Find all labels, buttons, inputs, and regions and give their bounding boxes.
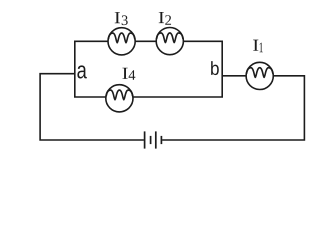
node a [77, 65, 86, 78]
wire: battery to right side up to lamp I1 [162, 76, 304, 140]
lamp I4 [106, 85, 133, 112]
lamp I1 [246, 62, 273, 89]
battery short plate left [150, 136, 152, 144]
label I4 [122, 68, 135, 80]
node b [211, 61, 219, 75]
battery short plate right [160, 136, 162, 144]
wire: node a to left side down to battery [40, 74, 144, 140]
label I3 [115, 12, 128, 25]
lamp I2 [156, 27, 183, 54]
label I2 [159, 12, 171, 25]
wire: inner rectangle between node a and node b [75, 41, 222, 97]
battery long plate right [155, 131, 157, 148]
label I1 [253, 40, 263, 53]
lamp I3 [108, 28, 135, 55]
wire: node b to lamp I1 [222, 75, 246, 77]
battery long plate left [144, 131, 146, 148]
